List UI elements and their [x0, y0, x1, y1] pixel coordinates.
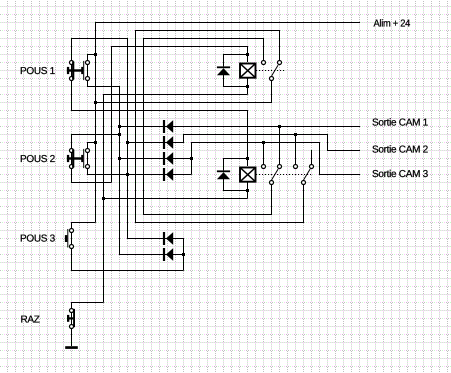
- flyback diode D7 top lead: [223, 54, 225, 66]
- wire horizontal y=222 POUS3 top feed: [71, 222, 96, 224]
- wire horizontal y=150 Sortie CAM 2 output: [327, 150, 360, 152]
- relay K2 pole B moving blade: [304, 169, 311, 180]
- relay coil K2 box: [240, 168, 256, 182]
- label Sortie CAM 2: [372, 145, 429, 156]
- relay K1 contact terminals: [262, 61, 282, 81]
- relay coil K1 box: [240, 64, 256, 78]
- wire +24 rail vertical x=95: [95, 22, 97, 223]
- wire horizontal y=182 POUS2 NC bottom: [71, 182, 112, 184]
- node junction K2 coil top / D8: [246, 157, 249, 160]
- node junction K2 pole A NC / CAM1 row: [278, 125, 281, 128]
- wire POUS2 NC top lead: [71, 134, 73, 148]
- label POUS 1: [20, 66, 56, 77]
- flyback diode D8 bottom lead: [223, 179, 225, 191]
- svg-text:Sortie CAM 1: Sortie CAM 1: [372, 118, 429, 129]
- relay K2 pole A NO terminal lead: [263, 142, 265, 164]
- label Sortie CAM 3: [372, 169, 429, 180]
- wire horizontal y=142 POUS2 NO top link: [87, 142, 96, 144]
- label RAZ: [20, 315, 39, 326]
- svg-text:Sortie CAM 3: Sortie CAM 3: [372, 169, 429, 180]
- wire POUS2 NC bottom lead: [71, 153, 73, 183]
- wire horizontal y=174 diode D4 row: [87, 174, 192, 176]
- wire RAZ/coil-return rail vertical x=103: [103, 94, 105, 303]
- wire RAZ top lead: [71, 302, 73, 308]
- diode D5: [163, 232, 173, 245]
- wire horizontal y=86 flyback D7 bottom link: [223, 86, 248, 88]
- pushbutton POUS3 moving blade: [67, 229, 69, 248]
- pushbutton POUS1 NO contact terminals: [86, 61, 90, 81]
- diode D1: [163, 120, 173, 133]
- pushbutton POUS2 NO contact terminals: [86, 149, 90, 169]
- wire POUS1 NO bottom lead: [87, 65, 89, 87]
- pushbutton POUS2 NO moving blade: [83, 149, 85, 168]
- wire horizontal y=158 flyback D8 top link: [223, 158, 248, 160]
- diode D6: [163, 248, 173, 261]
- pushbutton POUS3 terminals: [70, 229, 74, 249]
- relay coil K2 top lead: [247, 110, 249, 166]
- wire vertical x=319 (y=142 branch down to Sortie CAM 3): [319, 142, 321, 175]
- wire horizontal y=238 diode D5 row: [127, 238, 184, 240]
- wire vertical x=327 (y=134 branch down to Sortie CAM 2): [327, 134, 329, 151]
- relay K1 contact NO terminal lead: [263, 38, 265, 60]
- label Sortie CAM 1: [372, 118, 429, 129]
- wire horizontal y=142 diode D2 row: [127, 142, 184, 144]
- wire horizontal y=38 POUS1 NC top: [71, 38, 128, 40]
- pushbutton RAZ plunger: [67, 315, 73, 322]
- relay K1 common lead: [271, 81, 273, 103]
- wire POUS2 NO bottom lead: [87, 153, 89, 175]
- wire horizontal y=102 relay K1 common feed: [95, 102, 272, 104]
- relay K2 pole B NC terminal stub: [311, 150, 313, 164]
- wire vertical x=191 (D3/D4 tie to y=142): [191, 142, 193, 175]
- node junction K2 pole B NO / CAM2 row: [294, 133, 297, 136]
- svg-text:RAZ: RAZ: [20, 315, 39, 326]
- relay K2 pole A moving blade: [272, 169, 279, 180]
- relay coil K1 top lead: [247, 46, 249, 62]
- diode D4: [163, 168, 173, 181]
- wire horizontal y=94 relay K1 coil bottom return: [103, 94, 248, 96]
- label POUS 3: [20, 234, 56, 245]
- wire POUS1 NC bottom lead: [71, 65, 73, 111]
- relay K2 contact terminals: [262, 165, 314, 185]
- node junction +24 rail / POUS2 NO top: [94, 141, 97, 144]
- pushbutton POUS1 NC contact terminals: [70, 61, 74, 81]
- wire POUS3 bottom lead: [71, 233, 73, 271]
- wire POUS2 NO top lead: [87, 142, 89, 148]
- svg-text:POUS 3: POUS 3: [20, 234, 56, 245]
- wire POUS1 NC top lead: [71, 38, 73, 60]
- pushbutton RAZ terminals: [70, 309, 74, 329]
- wire vertical x=183 D5/D6 tie: [183, 238, 185, 271]
- wire horizontal y=134 D2 output to Sortie CAM 2: [183, 134, 328, 136]
- wire vertical x=127 (POUS1 NC top bus): [127, 38, 129, 239]
- node junction K2 pole A NO / y142: [262, 141, 265, 144]
- pushbutton POUS2 NC contact terminals: [70, 149, 74, 169]
- wire POUS3 top lead: [71, 222, 73, 228]
- pushbutton POUS1 plunger: [67, 67, 83, 74]
- svg-text:POUS 2: POUS 2: [20, 154, 56, 165]
- ground: [65, 346, 78, 349]
- svg-text:Alim + 24: Alim + 24: [373, 19, 410, 30]
- relay K1 moving blade: [272, 65, 279, 76]
- wire vertical x=135 (to relay K1 NC contact): [135, 30, 137, 223]
- node junction K1 coil top / D7: [246, 53, 249, 56]
- wire horizontal y=214 K2 common A to K1 NO: [143, 214, 272, 216]
- wire horizontal y=110 POUS1 NC bottom to relay K2 coil: [71, 110, 248, 112]
- node junction x119 / D1 row: [118, 125, 121, 128]
- wire horizontal y=198 relay K2 coil bottom return: [103, 198, 248, 200]
- svg-text:Sortie CAM 2: Sortie CAM 2: [372, 145, 429, 156]
- flyback diode D8 top lead: [223, 158, 225, 170]
- flyback diode D7 bottom lead: [223, 75, 225, 87]
- wire horizontal y=54 POUS1 NO top link: [87, 54, 96, 56]
- wire horizontal y=302 RAZ top link: [71, 302, 104, 304]
- pushbutton POUS3 plunger head: [65, 235, 67, 242]
- wire horizontal y=86 POUS1 NO bottom: [87, 86, 120, 88]
- wire horizontal y=38 (K1 NO contact branch): [143, 38, 264, 40]
- wire horizontal y=134 POUS2 NC top: [71, 134, 120, 136]
- node junction D5/D6 tie: [182, 253, 185, 256]
- wire horizontal y=142 D3/D4 output branch: [191, 142, 320, 144]
- wire horizontal y=54 flyback D7 top link: [223, 54, 248, 56]
- wire horizontal y=158 diode D3 row: [119, 158, 192, 160]
- pushbutton POUS2 NC bridge bar: [72, 150, 74, 168]
- wire horizontal y=190 flyback D8 bottom link: [223, 190, 248, 192]
- node junction return rail / K2 coil bottom: [102, 197, 105, 200]
- node junction x127 / D2 row: [126, 141, 129, 144]
- wire vertical x=143 (to relay K1 NO contact): [143, 38, 145, 215]
- relay coil K2 bottom lead: [247, 182, 249, 199]
- flyback diode D8: [217, 170, 230, 179]
- wire RAZ bottom lead to ground: [71, 313, 73, 346]
- wire horizontal y=222 K2 common B to K1 NC: [135, 222, 304, 224]
- relay K2 common B lead: [303, 185, 305, 223]
- node junction D3/D4 tie: [190, 157, 193, 160]
- pushbutton RAZ NC bridge bar: [73, 309, 75, 327]
- node junction x119 / POUS2 NC top: [118, 133, 121, 136]
- relay coil K1 bottom lead: [247, 78, 249, 95]
- diode D2: [163, 136, 173, 149]
- relay K2 pole A NC terminal lead: [279, 126, 281, 164]
- wire horizontal y=126 diode D1 row / Sortie CAM 1: [119, 126, 360, 128]
- node junction K1 coil bottom / D7: [246, 85, 249, 88]
- node junction +24 rail / K1 common: [94, 101, 97, 104]
- wire horizontal y=270 POUS3 bottom to D5/D6: [71, 270, 184, 272]
- wire Alim +24 horizontal y=22: [95, 22, 360, 24]
- node junction x119 / D3 row: [118, 157, 121, 160]
- relay K1 contact NC terminal lead: [279, 30, 281, 60]
- relay K2 linkage dotted line: [256, 174, 313, 176]
- pushbutton POUS1 NO moving blade: [83, 61, 85, 80]
- relay K2 pole B NO terminal lead: [295, 134, 297, 164]
- relay K1 linkage dotted line: [256, 70, 285, 72]
- wire horizontal y=174 Sortie CAM 3 output: [319, 174, 360, 176]
- node junction +24 rail / POUS1 NO top: [94, 53, 97, 56]
- wire jog vertical x=183 (D2 row up to y=134): [183, 134, 185, 143]
- wire POUS1 NO top lead: [87, 54, 89, 60]
- wire horizontal y=30 (K1 NC contact to K2 common B): [135, 30, 280, 32]
- flyback diode D7: [217, 66, 230, 75]
- node junction K2 coil bottom / D8: [246, 189, 249, 192]
- wire vertical x=111 (POUS2 NC bottom to relay K1 coil feed): [111, 46, 113, 183]
- label Alim + 24: [373, 19, 410, 30]
- diode D3: [163, 152, 173, 165]
- node junction x127 / D4 row: [126, 173, 129, 176]
- wire horizontal y=254 diode D6 row: [119, 254, 184, 256]
- wire vertical x=119 (POUS1 NO bottom bus): [119, 86, 121, 255]
- label POUS 2: [20, 154, 56, 165]
- svg-text:POUS 1: POUS 1: [20, 66, 56, 77]
- pushbutton POUS2 plunger: [67, 155, 83, 162]
- wire horizontal y=46 (relay K1 coil top feed): [111, 46, 248, 48]
- relay K2 common A lead: [271, 185, 273, 215]
- pushbutton POUS1 NC bridge bar: [72, 62, 74, 80]
